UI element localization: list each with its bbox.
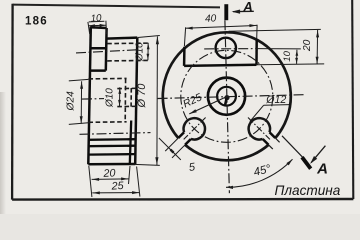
- left view slot line B: [88, 145, 136, 148]
- pocket right side: [255, 40, 258, 65]
- circle top extension: [229, 29, 321, 31]
- svg-text:20: 20: [102, 167, 116, 180]
- dimension 40 line: [185, 25, 257, 28]
- top hole circle: [216, 38, 236, 58]
- slot extension left b: [172, 145, 185, 158]
- left edge scan shadow: [0, 92, 6, 214]
- dimension 20 25 extension left: [89, 166, 92, 197]
- dimension 25 line: [92, 192, 139, 194]
- dia12 underline: [264, 104, 290, 107]
- dimension 10 right line: [296, 50, 298, 64]
- notch hole right: [249, 118, 270, 139]
- dimension 10 top extension left: [88, 22, 90, 34]
- left view step top edge: [90, 26, 106, 29]
- dimension dia24 extension top: [69, 79, 89, 81]
- left view center axis: [82, 98, 104, 101]
- slot extension right b: [275, 138, 279, 142]
- left view slot line C: [88, 153, 136, 156]
- dimension 20 extension right: [129, 166, 131, 184]
- left view outer left edge: [88, 27, 91, 165]
- section cutting line bottom: [282, 136, 303, 158]
- left view hidden counterbore top: [88, 77, 126, 80]
- horizontal centerline: [158, 95, 305, 99]
- frame right border: [352, 0, 353, 199]
- svg-text:Ø10: Ø10: [105, 88, 116, 108]
- dimension dia70 extension bottom: [131, 164, 160, 165]
- left view hidden top hole upper: [107, 42, 150, 45]
- left view slot line A: [88, 138, 136, 141]
- svg-text:Ø10: Ø10: [134, 42, 145, 62]
- dimension dia24 line: [80, 81, 82, 124]
- svg-text:Ø24: Ø24: [66, 91, 77, 112]
- left view hidden center hole lower: [117, 105, 137, 107]
- left view main top edge: [106, 38, 137, 39]
- svg-text:40: 40: [205, 13, 217, 25]
- chord right extension: [257, 63, 325, 66]
- dimension dia10 center line: [119, 87, 121, 106]
- dimension 40 extension left: [184, 27, 185, 46]
- left view inner right edge lower: [130, 121, 131, 165]
- pocket left side: [183, 47, 186, 66]
- left view step right edge: [105, 28, 108, 71]
- dimension 5 line: [159, 138, 181, 160]
- angle 45 arc: [226, 159, 293, 187]
- dia12 leader: [250, 105, 264, 121]
- frame left border: [11, 4, 14, 200]
- hub inner circle: [217, 87, 236, 106]
- slot edge right b: [270, 132, 276, 138]
- svg-text:20: 20: [302, 39, 313, 52]
- left view hidden center hole side: [130, 88, 132, 107]
- slot edge right a: [263, 139, 269, 145]
- frame top border: [13, 5, 220, 8]
- left view inner ledge upper: [90, 47, 106, 50]
- slot extension left a: [165, 138, 178, 151]
- radius R25 leader: [189, 97, 227, 114]
- slot extension right a: [269, 145, 273, 149]
- left view bottom edge: [88, 163, 135, 166]
- dimension dia10 top hole line: [147, 43, 149, 61]
- left view notch axis: [80, 133, 151, 135]
- dimension dia70 line: [156, 36, 159, 165]
- svg-text:A: A: [316, 160, 328, 177]
- dimension 10 top underline: [89, 20, 105, 23]
- svg-text:A: A: [242, 0, 253, 14]
- left view hidden counterbore bottom: [88, 121, 126, 124]
- dimension 10 top line: [88, 24, 106, 26]
- notch right radial centerline: [248, 118, 270, 140]
- dimension 25 extension right: [137, 167, 140, 197]
- dimension 40 extension right: [256, 25, 258, 40]
- dimension dia70 extension top: [138, 36, 160, 38]
- svg-text:10: 10: [90, 13, 102, 25]
- svg-text:Ø 70: Ø 70: [136, 83, 148, 109]
- left view outer right edge: [135, 38, 137, 164]
- section mark top bar: [224, 4, 228, 20]
- dimension 20 line: [92, 178, 129, 181]
- section mark bottom bar: [302, 157, 311, 169]
- svg-text:186: 186: [25, 16, 48, 28]
- left view top hole axis: [76, 50, 137, 53]
- svg-text:Пластина: Пластина: [275, 183, 341, 198]
- section mark top arrow: [233, 10, 254, 12]
- bolt circle: [181, 50, 273, 142]
- notch hole left: [184, 118, 205, 139]
- frame bottom border: [12, 198, 353, 201]
- svg-text:10: 10: [282, 50, 293, 61]
- slot edge left a: [178, 132, 184, 138]
- top hole centerline: [204, 48, 258, 50]
- plate outer circle: [185, 145, 268, 160]
- vertical centerline: [225, 20, 230, 193]
- dimension 20 right line: [316, 30, 319, 64]
- svg-text:25: 25: [110, 180, 125, 193]
- left view inner ledge lower: [90, 69, 106, 72]
- dimension dia24 extension bottom: [69, 123, 89, 125]
- section mark bottom arrow: [311, 146, 325, 163]
- slot edge left b: [185, 139, 191, 145]
- pocket chord edge: [184, 65, 256, 66]
- left view hidden top hole lower: [107, 59, 150, 62]
- dimension 10 top extension right: [105, 21, 108, 34]
- center mark: [224, 95, 229, 100]
- left view hidden counterbore floor: [124, 79, 126, 122]
- notch left radial centerline: [184, 118, 206, 140]
- hub outer circle: [208, 78, 245, 115]
- left view hidden center hole upper: [117, 87, 137, 89]
